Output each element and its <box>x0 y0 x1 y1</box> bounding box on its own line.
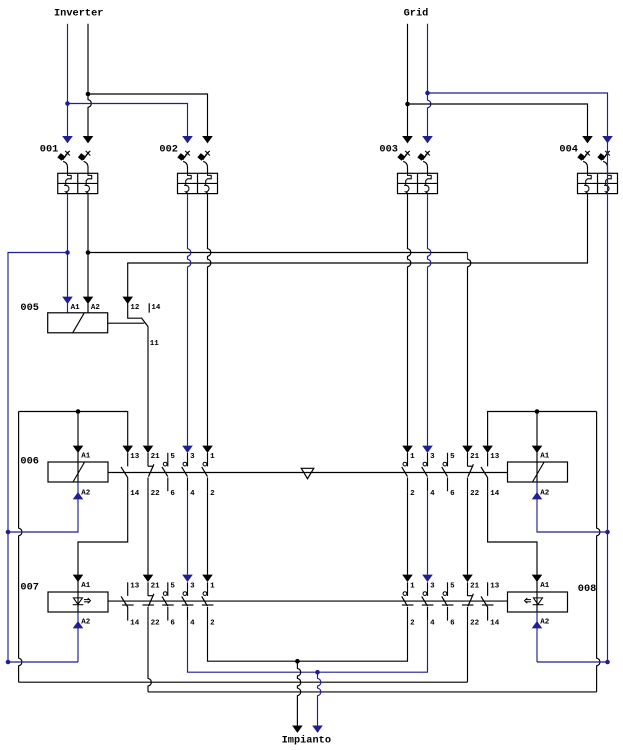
pin label 13 <box>130 453 140 461</box>
main contact 3-4 of contactor 006 (NC) <box>182 453 188 491</box>
svg-text:21: 21 <box>151 583 161 591</box>
pin label 22 <box>470 490 480 498</box>
svg-text:3: 3 <box>190 583 195 591</box>
pin label 11 of 005 <box>150 340 160 348</box>
wire black from breaker 001 right pole down to coil 005 A2 <box>83 194 94 313</box>
pin label 5 <box>170 453 175 461</box>
wire black output phase to Impianto (hops three buses) <box>292 661 303 733</box>
wire blue from breaker 003 right pole down to contact 3 (right group) <box>422 194 433 453</box>
svg-text:2: 2 <box>410 490 415 498</box>
breaker 002 (2-pole thermal-magnetic) <box>159 136 217 194</box>
svg-text:A2: A2 <box>81 619 91 627</box>
wire blue bus y=672 connecting left and right main contacts 4 <box>188 621 428 675</box>
pin label 14 <box>130 620 140 628</box>
pin label 21 <box>151 453 161 461</box>
svg-text:A2: A2 <box>540 619 550 627</box>
svg-text:13: 13 <box>490 583 500 591</box>
pin label A2 of 008 <box>540 619 550 627</box>
wire blue output neutral to Impianto (hops two buses) <box>312 672 323 733</box>
pin label 4 <box>190 490 195 498</box>
wire black feeder y=104 from grid L1 to breaker 004 left pole <box>408 104 588 136</box>
wire black horizontal y=263 from relay 005 contact 12 to breaker 004 left pole <box>122 194 587 304</box>
pin label 3 <box>430 583 435 591</box>
wire black feeder y=94 from inverter L2 to breaker 002 right pole <box>88 94 208 136</box>
pin label 6 <box>170 490 175 498</box>
wire blue stub at corner x=467.5 <box>467 253 469 259</box>
wire black feeder y=411.5 for right contactor coil and contact 13 <box>482 409 596 453</box>
wire blue from breaker 001 left pole down to coil 005 A1 <box>62 194 73 313</box>
pin label 3 <box>430 453 435 461</box>
svg-text:3: 3 <box>430 583 435 591</box>
pin label 21 <box>470 453 480 461</box>
pin label 12 of 005 <box>130 304 140 312</box>
svg-text:12: 12 <box>130 304 140 312</box>
pin label 22 <box>470 620 480 628</box>
pin label A2 of 006 <box>81 489 91 497</box>
svg-text:007: 007 <box>20 581 39 593</box>
pin label 2 <box>210 490 215 498</box>
contact 13-14 of right contactor (NO) <box>481 453 488 491</box>
wire blue rail x=607.5 from breaker 004 down to relay 008 A2 node <box>605 136 610 664</box>
breaker 004 (2-pole thermal-magnetic) <box>559 136 617 194</box>
mechanical link line row 1 between contactor 006 and right contactor <box>108 472 508 474</box>
wire grid L1 black vertical x=407.5 from label to breaker 003 <box>405 24 410 136</box>
contact 21-22 of right contactor (NC) <box>468 453 474 491</box>
main contact 1-2 of relay 007 (NC) <box>202 582 214 620</box>
svg-text:14: 14 <box>490 620 500 628</box>
svg-text:A1: A1 <box>81 582 91 590</box>
svg-text:6: 6 <box>450 490 455 498</box>
pin label 13 <box>490 583 500 591</box>
svg-text:14: 14 <box>130 490 140 498</box>
wire blue 006 A2 down-left to left rail (hops control line) <box>8 482 83 532</box>
pin label 5 <box>170 583 175 591</box>
svg-text:6: 6 <box>170 490 175 498</box>
svg-text:003: 003 <box>379 143 398 155</box>
wire black contact2 down to relay 008 contact 1 <box>402 491 413 582</box>
pin label 3 <box>190 583 195 591</box>
wire blue contact4 down to relay 007 contact 3 <box>182 491 193 582</box>
wire black control line x=18.6 from 006 feeder down to bottom bus (hops blue links) <box>19 412 22 683</box>
svg-text:4: 4 <box>430 490 435 498</box>
pin label 1 <box>410 583 415 591</box>
pin label A2 of 005 <box>91 304 101 312</box>
svg-text:A1: A1 <box>71 304 81 312</box>
pin label 6 <box>450 490 455 498</box>
svg-text:4: 4 <box>190 490 195 498</box>
svg-text:22: 22 <box>470 490 480 498</box>
contact 13-14 of contactor 006 (NO) <box>121 453 128 491</box>
svg-text:2: 2 <box>210 490 215 498</box>
wire black 008 A1 through coil <box>536 592 538 612</box>
wire black from breaker 003 left pole down to contact 1 (right group) <box>402 194 413 453</box>
relay 005 coil <box>20 302 107 333</box>
svg-text:1: 1 <box>410 453 415 461</box>
svg-text:Impianto: Impianto <box>282 734 331 746</box>
pin label 4 <box>430 620 435 628</box>
wire black bus y=692 from left contact 22 to control line x=596.6 <box>148 621 597 692</box>
pin label 2 <box>210 620 215 628</box>
wire black contact14 to relay 007 A1 <box>73 491 128 592</box>
main contact 3-4 of relay 007 (NC) <box>182 582 194 620</box>
svg-text:4: 4 <box>430 620 435 628</box>
svg-text:22: 22 <box>151 490 161 498</box>
wire black contact2 down to relay 007 contact 1 <box>202 491 213 582</box>
svg-text:2: 2 <box>410 620 415 628</box>
svg-text:Inverter: Inverter <box>54 7 103 19</box>
pin label 14 <box>130 490 140 498</box>
main contact 3-4 of right contactor (NC) <box>422 453 428 491</box>
wire black coil 006 A1 drop <box>73 412 84 483</box>
pin label 2 <box>410 620 415 628</box>
svg-text:3: 3 <box>430 453 435 461</box>
wire black from 005 contact 11 down to contact 21 (left group) <box>143 327 154 454</box>
pin label 14 <box>490 620 500 628</box>
wire black control line x=596.6 down to bottom bus (hops blue links) <box>597 412 600 692</box>
main contact 1-2 of right contactor (NC) <box>402 453 408 491</box>
pin label 1 <box>210 583 215 591</box>
svg-text:13: 13 <box>130 583 140 591</box>
pin label 6 <box>450 620 455 628</box>
pin label 22 <box>151 620 161 628</box>
main contact 1-2 of relay 008 (NC) <box>402 582 414 620</box>
relay 007 latching coil <box>20 581 108 612</box>
svg-text:001: 001 <box>40 143 59 155</box>
contact 5-6 of relay 007 (NC spare) <box>162 582 174 620</box>
right row1 contactor coil (unlabeled) <box>508 462 568 482</box>
svg-text:21: 21 <box>470 453 480 461</box>
svg-text:22: 22 <box>470 620 480 628</box>
wire black bus y=661 connecting left and right main contacts 2 <box>208 621 408 664</box>
main contact 3-4 of relay 008 (NC) <box>422 582 434 620</box>
pin label A1 of 006 <box>81 452 91 460</box>
pin label A1 of 005 <box>71 304 81 312</box>
svg-text:6: 6 <box>450 620 455 628</box>
pin label 4 <box>430 490 435 498</box>
pin label 14 <box>490 490 500 498</box>
svg-text:006: 006 <box>20 455 39 467</box>
pin label 5 <box>450 453 455 461</box>
wire black right contactor A1 drop <box>532 412 543 483</box>
svg-text:A1: A1 <box>81 452 91 460</box>
changeover contact 12-11-14 of relay 005 <box>128 303 150 326</box>
pin label 22 <box>151 490 161 498</box>
contact 21-22 of relay 007 (NC) <box>142 582 154 620</box>
pin label A2 of right contactor <box>540 489 550 497</box>
wire black horizontal y=252.5 from 005 A2 node to right group contact 21 <box>88 252 468 254</box>
svg-text:13: 13 <box>490 453 500 461</box>
wire blue 008 A2 down-right to blue rail (hops control line) <box>532 612 608 662</box>
pin label 1 <box>210 453 215 461</box>
pin label A2 of 007 <box>81 619 91 627</box>
svg-text:A2: A2 <box>91 304 101 312</box>
wire grid L2 blue vertical x=427.5 from label to breaker 003 (hops at y=104) <box>425 24 431 136</box>
svg-text:008: 008 <box>578 583 597 595</box>
svg-text:21: 21 <box>470 583 480 591</box>
wire blue 007 A2 down-left to left rail (hops control line) <box>8 612 83 662</box>
svg-text:005: 005 <box>20 302 39 314</box>
contact 5-6 of right contactor (NC spare) <box>442 453 448 491</box>
pin label 13 <box>130 583 140 591</box>
wire inverter L2 black vertical x=88 from label to breaker 001 (hops blue feeder) <box>86 24 92 136</box>
pin label 1 <box>410 453 415 461</box>
svg-text:004: 004 <box>559 143 578 155</box>
svg-text:1: 1 <box>210 453 215 461</box>
svg-text:002: 002 <box>159 143 178 155</box>
svg-text:1: 1 <box>210 583 215 591</box>
wire black bus y=682 from control line x=18.6 to right contact 22 <box>19 621 468 683</box>
svg-text:5: 5 <box>170 453 175 461</box>
svg-text:A1: A1 <box>540 452 550 460</box>
svg-text:14: 14 <box>151 304 161 312</box>
svg-text:5: 5 <box>450 453 455 461</box>
node Inverter (source label) <box>54 7 103 19</box>
svg-text:22: 22 <box>151 620 161 628</box>
svg-text:A1: A1 <box>540 582 550 590</box>
svg-text:Grid: Grid <box>404 7 429 19</box>
contact 13-14 of relay 008 (NO spare) <box>481 582 494 620</box>
breaker 001 (2-pole thermal-magnetic, inverter input) <box>40 136 98 194</box>
contactor 006 coil <box>20 455 108 482</box>
wire black contact14 to relay 008 A1 <box>488 491 543 592</box>
wire blue feeder y=93 from grid L2 to breaker 004 right pole <box>428 93 608 136</box>
svg-text:3: 3 <box>190 453 195 461</box>
svg-text:A2: A2 <box>540 489 550 497</box>
node Grid (source label) <box>404 7 429 19</box>
contact 5-6 of relay 008 (NC spare) <box>442 582 454 620</box>
wire blue from breaker 002 left pole down to contact 3 (left group) <box>182 194 193 453</box>
pin label 13 <box>490 453 500 461</box>
pin label 14 of 005 <box>151 304 161 312</box>
svg-text:2: 2 <box>210 620 215 628</box>
contact 21-22 of relay 008 (NC) <box>462 582 474 620</box>
contact 5-6 of contactor 006 (NC spare) <box>162 453 168 491</box>
svg-text:13: 13 <box>130 453 140 461</box>
svg-text:5: 5 <box>450 583 455 591</box>
pin label 6 <box>170 620 175 628</box>
svg-text:4: 4 <box>190 620 195 628</box>
wire black 007 A1 through coil <box>77 592 79 612</box>
wire black contact22 down to relay 007 contact 21 <box>143 491 154 582</box>
node Impianto (load label) <box>282 734 331 746</box>
svg-text:21: 21 <box>151 453 161 461</box>
relay 008 latching coil <box>508 583 597 612</box>
svg-text:14: 14 <box>490 490 500 498</box>
wire blue contact4 down to relay 008 contact 3 <box>422 491 433 582</box>
wire inverter L1 blue vertical x=67.5 from label to breaker 001 <box>65 24 70 136</box>
wire black contact22 down to relay 008 contact 21 <box>462 491 473 582</box>
mechanical interlock marker (triangle) row 1 <box>301 468 314 478</box>
wire blue left rail x=8 from node y=252.5 down to bottom <box>6 253 68 665</box>
svg-text:5: 5 <box>170 583 175 591</box>
pin label 2 <box>410 490 415 498</box>
wire blue feeder y=103.5 from inverter L1 to breaker 002 left pole <box>68 104 188 137</box>
pin label A1 of 007 <box>81 582 91 590</box>
pin label 5 <box>450 583 455 591</box>
wire black from breaker 002 right pole down to contact 1 (left group) <box>202 194 213 453</box>
mechanical link line row 2 between relay 007 and relay 008 <box>108 600 508 602</box>
svg-text:11: 11 <box>150 340 160 348</box>
svg-text:6: 6 <box>170 620 175 628</box>
pin label 21 <box>151 583 161 591</box>
pin label 4 <box>190 620 195 628</box>
contact 13-14 of relay 007 (NO spare) <box>121 582 134 620</box>
wire blue right contactor A2 down-right to blue rail (hops control line) <box>532 482 610 534</box>
pin label A1 of right contactor <box>540 452 550 460</box>
svg-text:A2: A2 <box>81 489 91 497</box>
contact 21-22 of contactor 006 (NC) <box>148 453 154 491</box>
breaker 003 (2-pole thermal-magnetic, grid input) <box>379 136 437 194</box>
svg-text:1: 1 <box>410 583 415 591</box>
svg-text:14: 14 <box>130 620 140 628</box>
wire black feeder y=411.5 for contactor 006 coil and contact 13 <box>19 409 133 453</box>
pin label A1 of 008 <box>540 582 550 590</box>
main contact 1-2 of contactor 006 (NC) <box>202 453 208 491</box>
mechanical link from coil 005 to its changeover contact <box>108 322 145 324</box>
pin label 21 <box>470 583 480 591</box>
wire black x=467.5 down to contact 21 of right contactor (hops y=263) <box>462 259 473 453</box>
pin label 3 <box>190 453 195 461</box>
